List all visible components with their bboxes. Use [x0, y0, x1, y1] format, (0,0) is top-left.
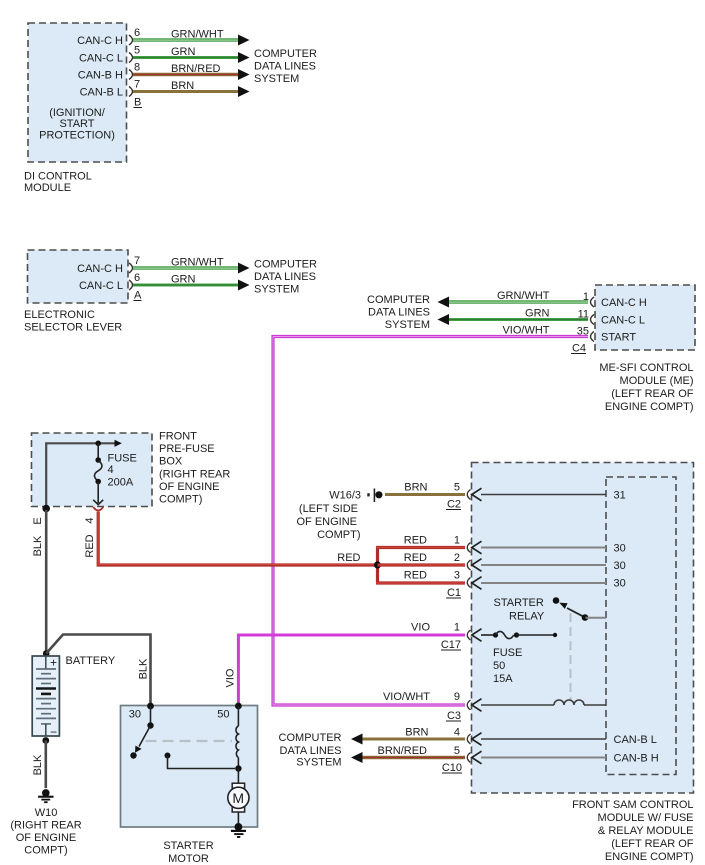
svg-text:SYSTEM: SYSTEM	[385, 319, 430, 331]
svg-text:COMPT): COMPT)	[317, 529, 360, 541]
module U2 ELECTRONIC SELECTOR LEVER box	[24, 250, 128, 334]
connector C4 label on U3	[571, 343, 586, 355]
pin 6 U1	[129, 27, 140, 45]
node junction dot pre-fuse internal	[95, 441, 101, 447]
pin 8 U1	[129, 62, 140, 80]
svg-text:(LEFT REAR OF: (LEFT REAR OF	[611, 388, 694, 400]
wire BRN/RED U1 pin8 to computer data lines	[133, 63, 250, 80]
svg-text:COMPUTER: COMPUTER	[254, 48, 317, 60]
svg-text:B: B	[134, 97, 141, 109]
svg-text:30: 30	[129, 709, 141, 721]
svg-text:STARTER: STARTER	[163, 840, 213, 852]
svg-text:BRN/RED: BRN/RED	[171, 63, 221, 75]
svg-text:FRONT: FRONT	[159, 431, 197, 443]
svg-text:DATA LINES: DATA LINES	[368, 307, 430, 319]
connector A label on U2	[134, 290, 143, 302]
svg-text:PRE-FUSE: PRE-FUSE	[159, 443, 215, 455]
svg-text:9: 9	[454, 691, 460, 703]
svg-text:C4: C4	[572, 343, 586, 355]
label 4 (rotated, fuse output)	[84, 517, 96, 523]
module M1 STARTER MOTOR box	[121, 706, 258, 865]
node COMPUTER DATA LINES SYSTEM (bottom)	[279, 732, 342, 769]
svg-text:CAN-C H: CAN-C H	[77, 35, 123, 47]
wire RED branch SAM C1 pin1	[376, 535, 465, 548]
connector C3 label	[446, 710, 461, 722]
pin 11 U3	[578, 309, 594, 325]
module U4 inner fuse/relay block box	[606, 477, 676, 775]
node terminal 30 dot	[147, 703, 154, 710]
svg-text:ENGINE COMPT): ENGINE COMPT)	[605, 851, 694, 863]
svg-text:CAN-C H: CAN-C H	[601, 297, 647, 309]
pin 5 SAM C10	[454, 745, 471, 763]
wire BLK battery negative to ground W10	[44, 741, 47, 789]
svg-text:50: 50	[493, 660, 505, 672]
node battery negative dot	[42, 737, 49, 744]
node COMPUTER DATA LINES SYSTEM (right)	[367, 294, 430, 331]
svg-text:GRN/WHT: GRN/WHT	[171, 257, 224, 269]
pin 7 U1	[129, 79, 140, 97]
node terminal 50 dot	[235, 703, 242, 710]
svg-text:ENGINE COMPT): ENGINE COMPT)	[605, 401, 694, 413]
connector C17 label	[441, 639, 461, 651]
svg-text:GRN: GRN	[525, 308, 550, 320]
svg-text:VIO: VIO	[225, 668, 237, 687]
label BLK (rotated, starter feed)	[138, 658, 150, 679]
svg-text:RED: RED	[404, 535, 427, 547]
svg-text:7: 7	[134, 255, 140, 267]
wire switch pole tap inside starter	[165, 753, 236, 769]
svg-text:FUSE: FUSE	[493, 647, 522, 659]
svg-text:START: START	[601, 332, 636, 344]
svg-text:FRONT SAM CONTROL: FRONT SAM CONTROL	[572, 799, 693, 811]
svg-text:GRN: GRN	[171, 46, 196, 58]
svg-text:BLK: BLK	[32, 754, 44, 775]
wire internal pin1 to inner block 30	[472, 541, 626, 554]
wire VIO/WHT net START: U3 pin35 to SAM C3 pin9	[272, 325, 588, 706]
svg-text:6: 6	[134, 27, 140, 39]
wire RED pre-fuse to SAM junction	[98, 512, 377, 566]
pin 5 U1	[129, 45, 140, 63]
svg-text:30: 30	[614, 543, 626, 555]
svg-text:(LEFT REAR OF: (LEFT REAR OF	[611, 838, 694, 850]
svg-text:START: START	[59, 118, 94, 130]
svg-text:CAN-C L: CAN-C L	[79, 280, 123, 292]
svg-text:BRN/RED: BRN/RED	[377, 745, 427, 757]
svg-text:SELECTOR LEVER: SELECTOR LEVER	[24, 322, 122, 334]
svg-text:−: −	[50, 725, 57, 739]
module U3 ME-SFI CONTROL MODULE box	[595, 285, 695, 413]
svg-text:GRN: GRN	[171, 274, 196, 286]
connector C2 label	[446, 499, 461, 511]
motor M armature	[228, 769, 249, 827]
fuse F50 15A	[472, 629, 557, 685]
ground starter motor	[231, 823, 246, 837]
pin 7 U2	[129, 255, 140, 273]
svg-text:(RIGHT REAR: (RIGHT REAR	[159, 469, 230, 481]
svg-text:200A: 200A	[108, 477, 134, 489]
wire internal pin2 to inner block 30	[472, 559, 626, 572]
pin 9 SAM C3	[383, 691, 471, 710]
wire internal CAN-B H to inner block	[472, 751, 659, 764]
svg-text:W10: W10	[35, 807, 58, 819]
svg-text:RED: RED	[337, 552, 360, 564]
pin 6 U2	[129, 272, 140, 290]
battery G1	[32, 655, 116, 739]
svg-text:MODULE: MODULE	[24, 182, 71, 194]
node E junction dot below pre-fuse box	[42, 505, 50, 513]
svg-text:4: 4	[108, 464, 114, 476]
svg-text:4: 4	[84, 517, 96, 523]
node battery positive junction dot	[43, 650, 50, 657]
svg-text:CAN-B L: CAN-B L	[614, 734, 657, 746]
svg-text:MODULE W/ FUSE: MODULE W/ FUSE	[598, 812, 694, 824]
svg-text:30: 30	[614, 578, 626, 590]
wire RED branch SAM C1 pin3	[376, 570, 465, 584]
pin 35 U3	[577, 326, 594, 342]
svg-text:SYSTEM: SYSTEM	[296, 757, 341, 769]
wire GRN U3 pin11 from computer data lines	[438, 308, 589, 326]
svg-text:E: E	[32, 517, 44, 524]
svg-text:DI CONTROL: DI CONTROL	[24, 171, 92, 183]
module U4 FRONT SAM CONTROL MODULE outer box	[472, 463, 694, 864]
node coil output junction dot	[235, 765, 241, 771]
wire VIO SAM C17 pin1 to starter motor 50	[238, 622, 465, 705]
svg-text:DATA LINES: DATA LINES	[280, 745, 342, 757]
label VIO (rotated)	[225, 668, 237, 687]
splice W16/3	[296, 489, 382, 542]
svg-text:COMPUTER: COMPUTER	[367, 294, 430, 306]
pin 3 SAM C1	[454, 570, 471, 588]
pin 1 SAM C1	[454, 535, 471, 553]
svg-text:PROTECTION): PROTECTION)	[39, 130, 115, 142]
svg-text:C10: C10	[442, 762, 462, 774]
relay coil L1 on C3 pin9 line	[472, 699, 606, 712]
solenoid coil in starter	[236, 706, 238, 767]
module FB1 FRONT PRE-FUSE BOX	[32, 431, 231, 507]
svg-text:SYSTEM: SYSTEM	[254, 284, 299, 296]
svg-text:ELECTRONIC: ELECTRONIC	[24, 309, 95, 321]
wire GRN U1 pin5 to computer data lines	[133, 46, 250, 63]
node COMPUTER DATA LINES SYSTEM (upper left)	[254, 48, 317, 85]
wire internal pin5 to inner block pin 31	[472, 488, 626, 501]
fuse F4 200A	[93, 443, 137, 504]
svg-text:BRN: BRN	[404, 482, 427, 494]
svg-text:C3: C3	[447, 710, 461, 722]
svg-text:RED: RED	[404, 570, 427, 582]
wire GRN U2 pin6 to computer data lines	[133, 274, 250, 291]
svg-text:W16/3: W16/3	[329, 490, 361, 502]
svg-text:C17: C17	[441, 639, 461, 651]
svg-text:M: M	[232, 790, 244, 806]
svg-text:BRN: BRN	[171, 80, 194, 92]
svg-text:CAN-C L: CAN-C L	[601, 315, 645, 327]
wire BRN SAM C10 pin4 to computer data lines	[351, 727, 465, 745]
svg-text:CAN-C L: CAN-C L	[79, 53, 123, 65]
svg-text:COMPUTER: COMPUTER	[254, 259, 317, 271]
wire internal pin3 to inner block 30	[472, 577, 626, 590]
svg-text:OF ENGINE: OF ENGINE	[296, 516, 357, 528]
svg-text:7: 7	[134, 79, 140, 91]
svg-text:8: 8	[134, 62, 140, 74]
svg-text:OF ENGINE: OF ENGINE	[159, 481, 220, 493]
node COMPUTER DATA LINES SYSTEM (mid left)	[254, 259, 317, 296]
label E (rotated)	[32, 517, 44, 524]
svg-text:6: 6	[134, 272, 140, 284]
svg-text:4: 4	[454, 727, 460, 739]
svg-text:CAN-B H: CAN-B H	[78, 70, 123, 82]
svg-text:5: 5	[134, 45, 140, 57]
svg-text:1: 1	[454, 535, 460, 547]
svg-text:+: +	[50, 656, 57, 670]
svg-text:GRN/WHT: GRN/WHT	[497, 290, 550, 302]
svg-text:BLK: BLK	[138, 658, 150, 679]
svg-text:5: 5	[454, 745, 460, 757]
svg-text:3: 3	[454, 570, 460, 582]
svg-text:OF ENGINE: OF ENGINE	[16, 832, 77, 844]
svg-text:BOX: BOX	[159, 456, 183, 468]
svg-text:& RELAY MODULE: & RELAY MODULE	[598, 825, 694, 837]
svg-text:STARTER: STARTER	[494, 597, 544, 609]
svg-text:SYSTEM: SYSTEM	[254, 73, 299, 85]
dashed actuation link in starter	[146, 740, 233, 742]
wire BRN U1 pin7 to computer data lines	[133, 80, 250, 97]
wire BRN W16/3 to SAM C2 pin5	[385, 482, 465, 495]
wire RED branch SAM C1 pin2	[378, 552, 466, 565]
svg-text:FUSE: FUSE	[108, 453, 137, 465]
svg-text:ME-SFI CONTROL: ME-SFI CONTROL	[599, 362, 693, 374]
svg-text:VIO/WHT: VIO/WHT	[383, 691, 430, 703]
connector pin 4 exit of pre-fuse box	[93, 507, 103, 511]
svg-text:C1: C1	[447, 587, 461, 599]
relay actuation dashed link	[570, 613, 572, 701]
svg-text:A: A	[134, 290, 142, 302]
svg-text:5: 5	[454, 482, 460, 494]
wire internal CAN-B L to inner block	[472, 733, 657, 746]
pin 2 SAM C1	[454, 552, 471, 570]
ground W10	[10, 789, 81, 856]
svg-text:(RIGHT REAR: (RIGHT REAR	[10, 820, 81, 832]
svg-text:50: 50	[217, 709, 229, 721]
pin 4 SAM C10	[454, 727, 471, 745]
pin 5 SAM C2	[454, 482, 471, 500]
pin 1 SAM C17	[454, 622, 471, 641]
svg-text:RELAY: RELAY	[509, 611, 545, 623]
wire GRN/WHT U3 pin1 from computer data lines	[438, 290, 589, 308]
pin 1 U3	[583, 291, 594, 307]
svg-text:COMPUTER: COMPUTER	[279, 732, 342, 744]
svg-text:C2: C2	[447, 499, 461, 511]
svg-text:RED: RED	[404, 552, 427, 564]
label RED (rotated, fuse output)	[84, 534, 96, 557]
svg-text:BLK: BLK	[32, 535, 44, 556]
connector C10 label	[442, 762, 462, 774]
node RED junction splice	[374, 548, 381, 584]
svg-text:VIO/WHT: VIO/WHT	[502, 325, 549, 337]
connector C1 label	[446, 587, 461, 599]
svg-text:COMPT): COMPT)	[159, 494, 202, 506]
svg-text:(LEFT SIDE: (LEFT SIDE	[299, 503, 358, 515]
svg-text:BRN: BRN	[405, 727, 428, 739]
svg-text:15A: 15A	[493, 673, 513, 685]
svg-text:CAN-B L: CAN-B L	[80, 87, 123, 99]
svg-text:COMPT): COMPT)	[24, 845, 67, 857]
connector B label on U1	[134, 97, 143, 109]
svg-text:DATA LINES: DATA LINES	[254, 271, 316, 283]
svg-text:GRN/WHT: GRN/WHT	[171, 29, 224, 41]
svg-text:MODULE (ME): MODULE (ME)	[620, 375, 694, 387]
wire BLK battery feed into pre-fuse box	[46, 440, 122, 510]
svg-text:DATA LINES: DATA LINES	[254, 61, 316, 73]
svg-text:VIO: VIO	[411, 622, 430, 634]
svg-text:2: 2	[454, 552, 460, 564]
svg-text:RED: RED	[84, 534, 96, 557]
relay K1 STARTER RELAY	[494, 597, 607, 623]
svg-text:30: 30	[614, 560, 626, 572]
svg-text:CAN-B H: CAN-B H	[614, 753, 659, 765]
wire BRN/RED SAM C10 pin5 to computer data lines	[351, 745, 465, 763]
wire GRN/WHT U2 pin7 to computer data lines	[133, 257, 250, 274]
wire GRN/WHT U1 pin6 to computer data lines	[133, 29, 250, 46]
label BLK (rotated, battery ground)	[32, 754, 44, 775]
wire BLK pre-fuse E to battery positive	[45, 510, 48, 652]
svg-text:BATTERY: BATTERY	[66, 655, 116, 667]
switch solenoid contact in starter	[130, 706, 153, 759]
svg-text:31: 31	[614, 490, 626, 502]
wire BLK battery positive to starter 30	[46, 635, 150, 705]
svg-text:CAN-C H: CAN-C H	[77, 263, 123, 275]
svg-text:MOTOR: MOTOR	[168, 853, 209, 865]
svg-text:1: 1	[454, 622, 460, 634]
label BLK (rotated, left wire)	[32, 535, 44, 556]
module U1 DI CONTROL MODULE box	[24, 23, 127, 194]
